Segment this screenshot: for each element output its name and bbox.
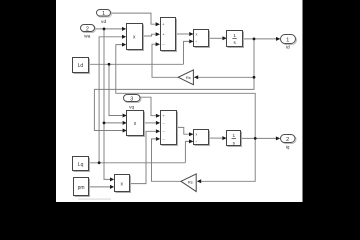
wire Ld riser down to product2 in1 bbox=[109, 64, 123, 115]
wire Rs2 out to sum2 in4 bbox=[152, 139, 182, 181]
svg-text:1: 1 bbox=[102, 11, 105, 17]
inport 1 vd bbox=[97, 10, 111, 17]
arrow integ2 in bbox=[222, 136, 226, 140]
block texts bbox=[78, 11, 290, 191]
divide D1 (1/Ld) bbox=[194, 30, 209, 47]
wire Lq riser to divide2 bbox=[185, 141, 189, 162]
wire integ2 out to outport iq bbox=[241, 137, 276, 139]
wire Ld riser to divide1 bbox=[184, 41, 190, 64]
svg-text:÷: ÷ bbox=[195, 140, 197, 144]
wire iq rail to product1 in3 bbox=[116, 45, 255, 139]
wire integ1 out to outport id bbox=[243, 38, 277, 40]
wire product3 out to sum2 in3 bbox=[130, 131, 156, 183]
wire wa to product1 bbox=[95, 28, 123, 30]
arrow product3 in1 bbox=[110, 177, 114, 181]
arrow product1 in1 bbox=[122, 27, 126, 31]
inport 2 wa bbox=[81, 25, 95, 32]
arrow sum2 in4 bbox=[156, 137, 160, 141]
wire wa riser down bbox=[103, 29, 105, 123]
wire Lq rail bbox=[89, 162, 185, 164]
arrow product1 in3 bbox=[122, 43, 126, 47]
wire divide2 out to integ2 bbox=[209, 137, 222, 139]
product U3 (wa*pm) bbox=[115, 175, 130, 192]
arrow outport id in bbox=[276, 37, 280, 41]
svg-text:1: 1 bbox=[233, 33, 236, 38]
arrow product2 in2 bbox=[123, 121, 127, 125]
wire wa down to product3 in1 bbox=[104, 123, 110, 179]
arrow outport iq in bbox=[276, 136, 280, 140]
svg-text:x: x bbox=[196, 32, 198, 36]
constant Lq bbox=[73, 157, 89, 171]
node wa junction bbox=[103, 28, 106, 31]
node iq junction bbox=[254, 137, 257, 140]
arrow sum2 in3 bbox=[156, 129, 160, 133]
constant Ld bbox=[73, 58, 89, 73]
outport 2 iq bbox=[281, 135, 296, 143]
svg-text:wa: wa bbox=[84, 34, 90, 39]
arrow sum1 in1 bbox=[156, 22, 160, 26]
node Lq junction bbox=[98, 161, 101, 164]
divide port marks bbox=[195, 32, 197, 143]
svg-text:vd: vd bbox=[101, 19, 106, 25]
wire vq to sum2 in1 bbox=[140, 97, 156, 116]
arrow product3 in2 bbox=[110, 185, 114, 189]
svg-text:÷: ÷ bbox=[196, 40, 198, 44]
wire Ld rail bbox=[88, 63, 183, 65]
port ovals bbox=[81, 10, 296, 143]
arrow product1 in2 bbox=[122, 35, 126, 39]
divide D2 (1/Lq) bbox=[194, 130, 209, 145]
wire Rs1 out to sum1 in3 bbox=[152, 44, 178, 77]
node id-Rs1 junction bbox=[253, 76, 256, 79]
block shadows bbox=[74, 19, 244, 197]
sum S1 bbox=[161, 18, 176, 51]
svg-text:3: 3 bbox=[130, 96, 133, 102]
svg-text:iq: iq bbox=[286, 144, 290, 150]
port oval shadows bbox=[82, 11, 297, 144]
arrow divide2 in1 bbox=[189, 132, 194, 136]
svg-text:1: 1 bbox=[233, 133, 236, 138]
svg-text:id: id bbox=[286, 44, 290, 50]
arrow Rs1 in bbox=[194, 75, 198, 79]
wire product1 out to sum1 in2 bbox=[142, 34, 156, 36]
main blocks bbox=[73, 18, 243, 196]
arrow product2 in1 bbox=[123, 114, 127, 118]
svg-text:2: 2 bbox=[86, 27, 89, 33]
wire product2 out to sum2 in2 bbox=[143, 122, 156, 124]
wire Lq riser up to product1 in2 bbox=[99, 37, 122, 163]
arrow divide1 in1 bbox=[189, 32, 193, 36]
svg-text:2: 2 bbox=[286, 137, 289, 143]
arrow sum1 in3 bbox=[156, 42, 160, 46]
wire sum2 out to divide2 bbox=[177, 127, 190, 134]
wire pm to product3 in2 bbox=[89, 186, 110, 188]
arrow product2 in3 bbox=[123, 129, 127, 133]
svg-text:vq: vq bbox=[129, 105, 134, 110]
integrator fraction bars bbox=[232, 39, 237, 139]
arrow divide2 in2 bbox=[189, 139, 194, 143]
wire sum1 out to divide1 bbox=[175, 33, 189, 35]
product U1 (wa*Lq*iq) bbox=[127, 24, 143, 50]
arrow sum1 in2 bbox=[156, 32, 160, 36]
arrow sum2 in2 bbox=[156, 121, 160, 125]
svg-text:x: x bbox=[196, 133, 198, 137]
arrowheads bbox=[110, 22, 280, 189]
outport 1 id bbox=[281, 35, 296, 44]
gain Rs1 triangle bbox=[178, 70, 193, 85]
svg-text:Lq: Lq bbox=[78, 162, 84, 168]
white diagram canvas bbox=[56, 0, 303, 202]
integrator I2 (1/s) bbox=[227, 131, 241, 146]
svg-text:Ld: Ld bbox=[78, 63, 84, 69]
wire vd to sum1 bbox=[111, 13, 156, 24]
gain Rs2 triangle bbox=[181, 174, 196, 192]
faint bottom smudge bbox=[78, 198, 111, 199]
wire id riser feedback to Rs1 bbox=[198, 39, 254, 77]
node Ld junction bbox=[108, 63, 111, 66]
svg-text:1: 1 bbox=[286, 37, 289, 43]
sum port marks bbox=[162, 23, 165, 142]
arrow Rs2 in bbox=[197, 179, 201, 183]
svg-text:Rs: Rs bbox=[186, 75, 191, 80]
product U2 (wa*Ld*id) bbox=[127, 111, 144, 136]
arrow sum2 in1 bbox=[156, 114, 160, 118]
node id junction bbox=[253, 38, 256, 41]
wire iq down to Rs2 bbox=[201, 138, 255, 181]
constant pm bbox=[74, 178, 89, 196]
node wa-product2 junction bbox=[103, 122, 106, 125]
inport 3 vq bbox=[124, 95, 141, 102]
wire id rail to product2 in3 bbox=[94, 77, 254, 130]
wire divide1 out to integ1 bbox=[209, 37, 222, 39]
arrow integ1 in bbox=[222, 36, 226, 40]
svg-text:Rs: Rs bbox=[188, 180, 193, 185]
wire wa branch to product2 in2 bbox=[104, 122, 123, 124]
arrow divide1 in2 bbox=[189, 39, 193, 43]
svg-text:pm: pm bbox=[78, 185, 85, 191]
integrator I1 (1/s) bbox=[227, 31, 243, 47]
sum S2 bbox=[161, 111, 177, 145]
